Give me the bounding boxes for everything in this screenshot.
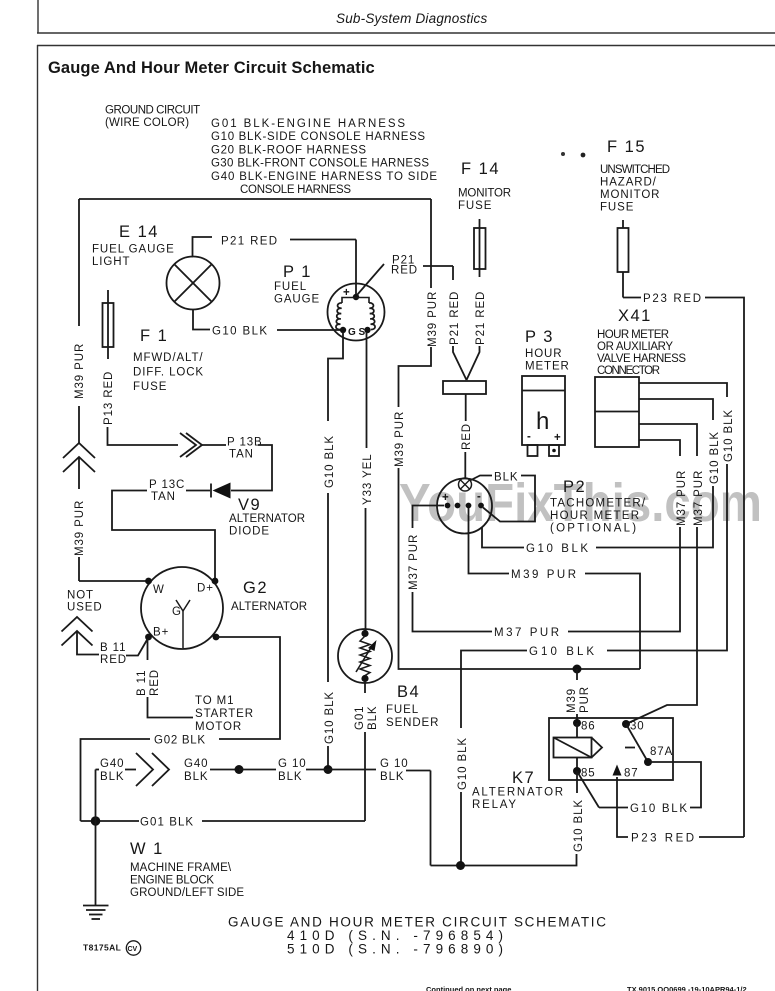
svg-text:G10 BLK: G10 BLK: [457, 737, 469, 790]
relay terminal 87 arrow: [613, 765, 639, 780]
svg-text:B 11: B 11: [100, 642, 126, 654]
svg-text:ENGINE BLOCK: ENGINE BLOCK: [130, 875, 215, 887]
dust specks: [561, 152, 585, 157]
svg-text:BLK: BLK: [380, 771, 404, 783]
wire B11 RED to not-used connector: [77, 631, 148, 656]
svg-text:G01: G01: [354, 706, 366, 730]
wire across B4 lead: [306, 769, 376, 771]
symbol CV circle: [126, 941, 140, 955]
svg-text:G10 BLK: G10 BLK: [526, 543, 589, 555]
svg-text:ALTERNATOR: ALTERNATOR: [472, 787, 564, 799]
wire G10 BLK from P1 G pin down: [328, 332, 343, 421]
svg-text:VALVE HARNESS: VALVE HARNESS: [597, 353, 687, 365]
wire Y33 YEL to fuel sender: [365, 508, 367, 633]
svg-text:E 14: E 14: [119, 223, 159, 241]
svg-text:STARTER: STARTER: [195, 708, 254, 720]
svg-text:Y33 YEL: Y33 YEL: [362, 454, 374, 506]
wire X41 pin1: [639, 383, 727, 397]
wire G10 BLK lower row left segment: [461, 651, 527, 729]
wire to G10 label: [239, 769, 276, 771]
svg-text:P2: P2: [563, 478, 586, 496]
wire M39 PUR right and down to junction: [585, 574, 640, 670]
svg-text:NOT: NOT: [67, 590, 94, 602]
svg-text:RED: RED: [100, 654, 127, 666]
label G01 BLK (vertical): [354, 706, 379, 730]
svg-text:FUEL: FUEL: [386, 704, 419, 716]
svg-text:P21 RED: P21 RED: [475, 291, 487, 345]
svg-text:T8175AL: T8175AL: [83, 943, 121, 953]
connector chevrons not used: [62, 617, 93, 646]
svg-text:GROUND CIRCUIT: GROUND CIRCUIT: [105, 105, 201, 117]
relay switch arm 30 to 87A: [626, 724, 648, 762]
wire ground drop: [95, 770, 97, 906]
relay terminal 87A: [644, 746, 673, 766]
wire P13 RED down to P13B row: [108, 427, 179, 445]
svg-text:TX,9015,QQ0699 -19-10APR94-: TX,9015,QQ0699 -19-10APR94-1/2: [627, 985, 747, 991]
wire 85 lead to bottom bus: [431, 854, 577, 866]
junction dot W1 ground node: [91, 816, 101, 826]
connector chevrons G40: [136, 753, 169, 786]
label G10 BLK (second): [380, 758, 409, 783]
svg-text:RED: RED: [149, 669, 161, 696]
svg-text:FUSE: FUSE: [133, 381, 167, 393]
svg-text:Gauge And Hour Meter Circuit S: Gauge And Hour Meter Circuit Schematic: [48, 59, 375, 77]
svg-text:G10 BLK: G10 BLK: [324, 691, 336, 744]
svg-text:G10 BLK: G10 BLK: [212, 326, 268, 338]
svg-text:P 1: P 1: [283, 263, 312, 281]
wire G10 BLK to bottom junction: [327, 746, 329, 770]
svg-text:UNSWITCHED: UNSWITCHED: [600, 164, 671, 176]
page header rule top: [37, 0, 775, 33]
wire B11 RED to starter motor: [147, 640, 149, 660]
svg-text:G10 BLK: G10 BLK: [723, 409, 735, 462]
svg-text:M37 PUR: M37 PUR: [408, 534, 420, 590]
label P2 TACHOMETER/HOUR METER (OPTIONAL): [550, 478, 646, 535]
wire P21 RED into P1 plus pin: [355, 240, 357, 295]
svg-text:(WIRE COLOR): (WIRE COLOR): [105, 117, 190, 129]
wire Y33 YEL from P1 S pin down: [366, 332, 368, 448]
legend: ground circuit wire color key: [105, 105, 438, 197]
svg-text:METER: METER: [525, 361, 570, 373]
svg-text:W: W: [153, 584, 165, 596]
svg-text:B+: B+: [153, 627, 169, 639]
svg-text:FUSE: FUSE: [458, 200, 492, 212]
connector chevrons on M39 PUR left line: [63, 443, 95, 472]
svg-text:G 10: G 10: [380, 758, 409, 770]
svg-text:LIGHT: LIGHT: [92, 256, 130, 268]
svg-text:-: -: [527, 431, 532, 443]
label TO M1 STARTER MOTOR: [195, 695, 254, 733]
svg-text:M37 PUR: M37 PUR: [676, 470, 688, 526]
relay coil: [554, 723, 636, 771]
svg-text:M39 PUR: M39 PUR: [511, 569, 577, 581]
svg-text:Sub-System Diagnostics: Sub-System Diagnostics: [336, 11, 488, 26]
svg-text:M39: M39: [566, 688, 578, 713]
svg-text:87: 87: [624, 768, 639, 780]
svg-text:SENDER: SENDER: [386, 717, 439, 729]
svg-text:ALTERNATOR: ALTERNATOR: [231, 601, 308, 613]
junction dot G40/G10: [235, 765, 244, 774]
wire F14 lead into terminal: [467, 346, 480, 380]
svg-text:G30 BLK-FRONT CONSOLE HARNE: G30 BLK-FRONT CONSOLE HARNESS: [211, 158, 430, 170]
svg-text:G: G: [348, 327, 356, 338]
wire G10 BLK to relay 85: [578, 773, 628, 808]
svg-text:TACHOMETER/: TACHOMETER/: [550, 498, 646, 510]
svg-text:BLK: BLK: [278, 771, 302, 783]
svg-text:M39 PUR: M39 PUR: [394, 411, 406, 467]
wire M37 PUR from P2 plus pin: [413, 506, 445, 529]
svg-text:+: +: [554, 432, 562, 444]
wire G10 BLK w1 down to lower row: [607, 464, 727, 651]
wire G10 BLK continues down: [327, 493, 329, 682]
wire M37 PUR down to relay 30: [626, 527, 697, 724]
wire X41 pin4: [639, 440, 680, 456]
svg-text:PUR: PUR: [579, 686, 591, 713]
svg-text:BLK: BLK: [100, 771, 124, 783]
caption schematic title: [228, 915, 606, 957]
wire G10 BLK down to bottom bus: [460, 792, 462, 866]
connector chevrons P13B: [180, 433, 202, 457]
wire P13C to alternator D+: [112, 491, 215, 579]
svg-text:X41: X41: [618, 307, 652, 325]
relay terminal 85: [573, 767, 596, 780]
svg-text:RELAY: RELAY: [472, 799, 517, 811]
svg-text:M37 PUR: M37 PUR: [693, 470, 705, 526]
wire M39 PUR top loop (left vertical and top horizontal): [79, 199, 431, 581]
wire P13C TAN segment: [186, 490, 210, 492]
svg-text:P21 RED: P21 RED: [221, 236, 278, 248]
svg-text:ALTERNATOR: ALTERNATOR: [229, 513, 306, 525]
wire G01 BLK from fuel sender down: [364, 682, 366, 693]
svg-text:CONSOLE HARNESS: CONSOLE HARNESS: [240, 184, 352, 196]
label G10 BLK (first): [278, 758, 307, 783]
wire M37 PUR down and right: [413, 592, 493, 632]
svg-text:FUEL: FUEL: [274, 281, 307, 293]
svg-text:G10 BLK: G10 BLK: [324, 435, 336, 488]
svg-text:M39 PUR: M39 PUR: [74, 500, 86, 556]
svg-text:B4: B4: [397, 683, 420, 701]
wire relay 85 down: [576, 771, 578, 793]
svg-text:G10 BLK: G10 BLK: [709, 431, 721, 484]
svg-text:G40: G40: [184, 758, 208, 770]
wire RED lower segment: [464, 452, 466, 478]
svg-text:B 11: B 11: [136, 670, 148, 696]
lamp E14 fuel gauge light: [167, 257, 220, 310]
junction dot G10: [324, 765, 333, 774]
wire E14 bottom lead G10 BLK: [193, 310, 340, 331]
svg-text:G10 BLK: G10 BLK: [529, 646, 595, 658]
svg-text:HAZARD/: HAZARD/: [600, 177, 657, 189]
svg-text:CV: CV: [128, 946, 138, 953]
fuse F15: [618, 220, 629, 298]
svg-text:G10 BLK: G10 BLK: [573, 799, 585, 852]
svg-text:G40 BLK-ENGINE HARNESS TO: G40 BLK-ENGINE HARNESS TO SIDE: [211, 171, 438, 183]
wire BLK loop from P2 lamp: [470, 476, 492, 481]
connector P2 tachometer: [437, 478, 492, 534]
wire M39 PUR to alternator W terminal: [79, 580, 146, 582]
svg-text:MOTOR: MOTOR: [195, 721, 242, 733]
svg-text:h: h: [536, 408, 549, 435]
wire RED from splice to P2: [465, 394, 467, 421]
svg-text:P13 RED: P13 RED: [103, 371, 115, 425]
svg-text:G01 BLK-ENGINE HARNESS: G01 BLK-ENGINE HARNESS: [211, 118, 406, 130]
junction G10 bottom bus: [456, 861, 465, 870]
wire G10 BLK row right to X41 riser w2: [596, 486, 713, 548]
svg-text:P 3: P 3: [525, 328, 554, 346]
label B4 FUEL SENDER: [386, 683, 439, 729]
svg-text:D+: D+: [197, 583, 214, 595]
wire X41 pin3: [639, 424, 697, 456]
svg-text:BLK: BLK: [184, 771, 208, 783]
wire riser from G10 row to bus: [430, 771, 432, 866]
svg-text:HOUR: HOUR: [525, 348, 562, 360]
svg-text:P23 RED: P23 RED: [643, 293, 702, 305]
svg-text:M37 PUR: M37 PUR: [494, 627, 560, 639]
svg-text:85: 85: [581, 768, 596, 780]
svg-text:GROUND/LEFT SIDE: GROUND/LEFT SIDE: [130, 887, 245, 899]
svg-text:G10 BLK: G10 BLK: [630, 803, 688, 815]
svg-text:86: 86: [581, 721, 596, 733]
junction M39 PUR node: [573, 665, 582, 674]
wire BLK loop return to minus pin: [483, 476, 535, 522]
svg-text:(OPTIONAL): (OPTIONAL): [550, 523, 637, 535]
svg-text:+: +: [442, 492, 450, 504]
svg-text:87A: 87A: [650, 746, 673, 758]
svg-text:HOUR METER: HOUR METER: [550, 510, 640, 522]
svg-text:M39 PUR: M39 PUR: [74, 343, 86, 399]
svg-text:G20 BLK-ROOF HARNESS: G20 BLK-ROOF HARNESS: [211, 144, 367, 156]
fuse F14: [474, 219, 486, 277]
wire P21 RED right branch down: [452, 266, 454, 280]
wire P21 RED cross junction: [423, 199, 453, 288]
svg-text:TAN: TAN: [229, 449, 254, 461]
label W1 MACHINE FRAME ENGINE BLOCK GROUND: [130, 840, 245, 899]
diode V9: [211, 483, 231, 499]
svg-text:USED: USED: [67, 602, 103, 614]
svg-text:MONITOR: MONITOR: [458, 188, 512, 200]
wire P23 RED top row: [623, 298, 744, 838]
label B11 RED (vertical): [136, 669, 161, 696]
relay terminal 30: [622, 720, 645, 733]
svg-text:RED: RED: [461, 423, 473, 450]
svg-text:DIODE: DIODE: [229, 526, 270, 538]
svg-text:30: 30: [630, 721, 645, 733]
svg-text:RED: RED: [391, 265, 418, 277]
label X41 HOUR METER OR AUXILIARY VALVE HARNESS CONNECTOR: [597, 307, 687, 377]
svg-text:GAUGE: GAUGE: [274, 294, 320, 306]
wire P21 RED into terminal: [453, 346, 467, 380]
connector X41: [595, 377, 639, 447]
svg-text:F 1: F 1: [140, 327, 168, 345]
wire M39 PUR down to bottom row: [399, 468, 641, 669]
wire E14 top lead P21 RED: [193, 237, 357, 257]
svg-text:TO M1: TO M1: [195, 695, 234, 707]
svg-text:G02 BLK: G02 BLK: [154, 735, 206, 747]
alternator G2: [141, 567, 223, 649]
svg-text:G10 BLK-SIDE CONSOLE HARNES: G10 BLK-SIDE CONSOLE HARNESS: [211, 131, 426, 143]
svg-text:FUSE: FUSE: [600, 202, 634, 214]
fuel sender B4: [338, 629, 392, 683]
relay K7 box: [549, 718, 673, 780]
label G40 BLK (right): [184, 758, 208, 783]
svg-text:BLK: BLK: [494, 472, 518, 484]
svg-text:MACHINE FRAME\: MACHINE FRAME\: [130, 862, 232, 874]
label K7 ALTERNATOR RELAY: [472, 769, 564, 811]
wire relay 87 P23 RED: [617, 777, 628, 837]
wire 87A to G10 BLK: [650, 762, 701, 808]
svg-text:Continued on next page: Continued on next page: [426, 985, 511, 991]
wire X41 pin2: [639, 399, 713, 420]
svg-text:HOUR METER: HOUR METER: [597, 329, 670, 341]
bottom ground bus G40/G10 row: [96, 769, 137, 771]
svg-text:510D (S.N. -796890): 510D (S.N. -796890): [287, 942, 503, 957]
fuel gauge P1: [328, 284, 385, 341]
svg-text:FUEL GAUGE: FUEL GAUGE: [92, 244, 175, 256]
svg-text:P 13B: P 13B: [227, 437, 263, 449]
svg-text:F 15: F 15: [607, 138, 646, 156]
wire G40 to junction: [210, 769, 239, 771]
svg-text:BLK: BLK: [367, 706, 379, 730]
svg-text:P21 RED: P21 RED: [449, 291, 461, 345]
fuse F1: [103, 290, 114, 359]
ground W1 symbol: [83, 906, 109, 920]
svg-text:G2: G2: [243, 579, 268, 597]
label M39 PUR (vertical above relay): [566, 686, 591, 713]
label P3 HOUR METER: [525, 328, 570, 373]
svg-text:MONITOR: MONITOR: [600, 189, 660, 201]
wire G01 BLK row: [81, 820, 366, 822]
svg-text:G 10: G 10: [278, 758, 307, 770]
wire P23 RED to right riser: [699, 836, 744, 838]
svg-text:V9: V9: [238, 496, 261, 514]
wire M39 PUR junction down to relay 86: [576, 669, 578, 680]
wire M39 PUR from P2 center pin: [469, 508, 510, 574]
svg-text:M39 PUR: M39 PUR: [427, 291, 439, 347]
svg-text:CONNECTOR: CONNECTOR: [597, 365, 661, 377]
svg-text:OR AUXILIARY: OR AUXILIARY: [597, 341, 674, 353]
svg-text:P 13C: P 13C: [149, 479, 185, 491]
svg-text:MFWD/ALT/: MFWD/ALT/: [133, 352, 204, 364]
svg-text:W 1: W 1: [130, 840, 164, 858]
wire G02 BLK from alternator case: [81, 637, 281, 821]
relay terminal 86: [573, 719, 596, 733]
wire G10 row right end riser: [406, 770, 431, 772]
svg-text:K7: K7: [512, 769, 535, 787]
wire G10 BLK from P2 edge: [482, 527, 524, 548]
svg-text:G01 BLK: G01 BLK: [140, 817, 194, 829]
wire chevron to P13B label: [202, 444, 226, 446]
wire pointer from P1 plus to P21 RED label: [357, 264, 384, 295]
hour meter P3: [522, 376, 565, 456]
terminal splice bar: [443, 381, 486, 394]
wire M37 PUR row to X41 riser: [568, 527, 680, 632]
wire M39 PUR jog left: [399, 347, 432, 407]
svg-text:-: -: [477, 491, 482, 503]
svg-text:P23 RED: P23 RED: [631, 833, 695, 845]
svg-text:F 14: F 14: [461, 160, 500, 178]
svg-text:S: S: [359, 327, 366, 338]
wire P13B down to diode: [231, 445, 272, 491]
svg-text:DIFF. LOCK: DIFF. LOCK: [133, 367, 204, 379]
svg-text:G40: G40: [100, 758, 124, 770]
svg-text:TAN: TAN: [151, 491, 176, 503]
label G40 BLK (left): [100, 758, 124, 783]
